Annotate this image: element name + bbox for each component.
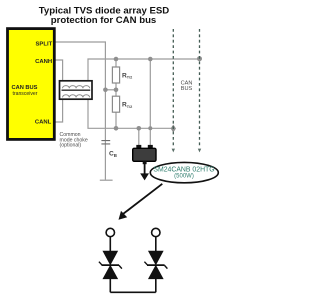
- capacitor CB plates: [101, 141, 110, 144]
- wire: CANH pin to choke (left vertical): [56, 60, 63, 81]
- choke winding (bottom coil): [63, 95, 90, 98]
- arrowhead of right dashed line: [198, 149, 201, 153]
- TVS package bottom pin stub: [143, 161, 147, 164]
- svg-text:SM24CANB 02HTG: SM24CANB 02HTG: [153, 166, 214, 173]
- wire: TVS CANL lead: [138, 128, 140, 145]
- wire: R1 leads: [115, 59, 117, 96]
- junction dot: midpoint at resistors: [114, 88, 119, 93]
- detail: right TVS diode (bidirectional): [144, 236, 167, 292]
- junction dot: CANH at CAN bus: [197, 56, 202, 61]
- resistor R_T/2 (lower): [112, 96, 119, 112]
- wire: TVS CANH lead: [149, 59, 151, 145]
- common mode choke L1 (box): [60, 81, 93, 99]
- wire: CANH bus line from choke to CAN bus: [88, 59, 200, 81]
- CAN bus dashed line (right): [199, 29, 201, 147]
- wire: CANL pin to choke (left vertical): [56, 99, 63, 122]
- TVS array package pin stubs (top): [136, 145, 141, 149]
- svg-text:protection for CAN bus: protection for CAN bus: [51, 15, 157, 26]
- detail: right TVS diode terminal circle: [152, 228, 160, 236]
- resistor R_T/2 (upper): [112, 67, 119, 83]
- wire: SPLIT from transceiver to split-termination midpoint and CB: [56, 42, 106, 180]
- wire: CANL bus line from choke to CAN bus: [88, 99, 173, 128]
- wire: resistor midpoint link to SPLIT line: [105, 89, 116, 91]
- junction dot: CANH/TVS lead: [148, 57, 153, 62]
- choke winding (top coil): [63, 86, 90, 89]
- junction dot: CANL/TVS left lead: [137, 126, 142, 131]
- label SM24CANB 02HTG (500W): [153, 166, 214, 179]
- terminator diamond: CANL at CAN bus: [171, 125, 176, 133]
- title: [39, 6, 170, 26]
- svg-text:BUS: BUS: [181, 86, 193, 92]
- choke core line: [62, 89, 91, 91]
- junction dot: CANL/R2: [114, 126, 119, 131]
- detail: left TVS diode terminal circle: [106, 228, 114, 236]
- wire: R2 lead to CANL: [115, 112, 117, 128]
- label common mode choke: [60, 132, 88, 149]
- CAN bus transceiver U1 (yellow box): [8, 29, 55, 140]
- junction dot: CANH/R1: [114, 57, 119, 62]
- junction dot: midpoint on SPLIT line: [103, 88, 108, 93]
- callout arrow to diode detail: [123, 184, 163, 215]
- junction dot: CANL/TVS right lead crossing: [148, 126, 152, 130]
- ground bar for CB: [100, 179, 113, 181]
- svg-text:transceiver: transceiver: [13, 91, 38, 97]
- svg-text:(500W): (500W): [174, 173, 194, 179]
- TVS diode array package body: [133, 148, 156, 161]
- svg-text:SPLIT: SPLIT: [35, 42, 52, 48]
- CAN bus dashed line (left): [172, 29, 174, 147]
- detail: left TVS diode (bidirectional): [99, 236, 122, 292]
- label CAN BUS (bus): [181, 81, 193, 92]
- ground arrow of TVS package: [144, 164, 146, 174]
- svg-text:CANH: CANH: [35, 59, 52, 65]
- svg-text:(optional): (optional): [60, 143, 82, 149]
- svg-text:CANL: CANL: [35, 120, 52, 126]
- wire: detail bottom link: [110, 291, 156, 293]
- callout ellipse SM24CANB-02HTG: [150, 162, 218, 182]
- arrowhead of left dashed line: [172, 149, 175, 153]
